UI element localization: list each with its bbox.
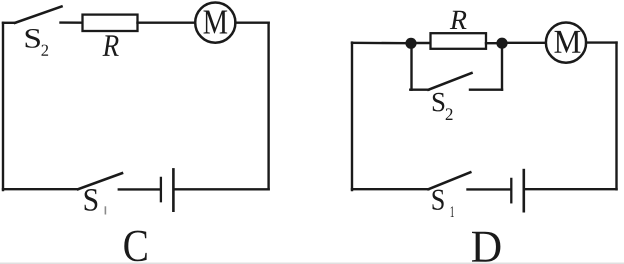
wire: battery to bottom-right corner (circuit D) (525, 188, 617, 190)
wire: parallel branch bottom-left segment (circuit D) (410, 88, 428, 90)
resistor R (circuit D) body (431, 33, 487, 49)
scan artifact: faint bottom edge line (0, 263, 624, 264)
wire: battery to bottom-right corner (circuit C) (175, 188, 269, 190)
battery (circuit D) short plate (510, 179, 512, 202)
battery (circuit D) long plate (522, 170, 525, 211)
wire: circuit C right vertical (267, 23, 269, 190)
wire: parallel branch right vertical (circuit D) (501, 43, 503, 89)
wire: circuit D left vertical (351, 43, 353, 190)
wire: junction dot 2 to motor M (circuit D) (506, 42, 546, 44)
wire: motor M to top-right corner (circuit D) (586, 41, 616, 43)
wire: junction dot 1 to resistor R (circuit D) (415, 42, 431, 44)
label R (circuit C) (103, 35, 119, 56)
wire: switch S2 contact to resistor R (61, 21, 83, 24)
wire: circuit C left vertical (2, 23, 4, 190)
switch S2 (circuit D) blade (429, 73, 472, 90)
wire: switch S1 contact to battery (circuit D) (468, 188, 511, 190)
wire: circuit C bottom-left segment (3, 188, 78, 190)
wire: switch S1 contact to battery (circuit C) (119, 188, 160, 190)
label S1 (circuit C) (85, 189, 107, 215)
label S1 (circuit D) (433, 190, 454, 217)
motor M (circuit D) circle (546, 22, 586, 62)
wire: resistor R to junction dot 2 (circuit D) (486, 42, 498, 44)
label C (circuit C) (124, 231, 146, 262)
label S2 (circuit C) (26, 29, 48, 56)
motor M (circuit C) circle (195, 3, 235, 43)
resistor R (circuit C) body (83, 15, 138, 31)
battery (circuit C) short plate (160, 178, 162, 201)
wire: parallel branch left vertical (circuit D) (410, 43, 412, 89)
label R (circuit D) (450, 11, 467, 29)
battery (circuit C) long plate (172, 169, 175, 210)
switch S1 (circuit C) blade (78, 173, 122, 189)
label M (circuit C) (204, 11, 228, 34)
label D (circuit D) (472, 232, 500, 262)
wire: parallel branch bottom-right segment (circuit D) (470, 88, 502, 90)
switch S2 (circuit C) blade (15, 7, 62, 23)
label S2 (circuit D) (433, 93, 453, 120)
node: junction dot 1 (circuit D) (405, 38, 416, 49)
wire: circuit D right vertical (615, 43, 617, 190)
wire: circuit C top-left stub (3, 22, 15, 24)
wire: motor M to top-right corner (circuit C) (235, 22, 268, 24)
switch S1 (circuit D) blade (429, 172, 471, 189)
wire: resistor R to motor M (circuit C) (138, 22, 196, 24)
label M (circuit D) (555, 31, 581, 53)
node: junction dot 2 (circuit D) (496, 38, 507, 49)
wire: circuit D top-left segment (352, 42, 407, 45)
wire: circuit D bottom-left segment (352, 188, 429, 190)
